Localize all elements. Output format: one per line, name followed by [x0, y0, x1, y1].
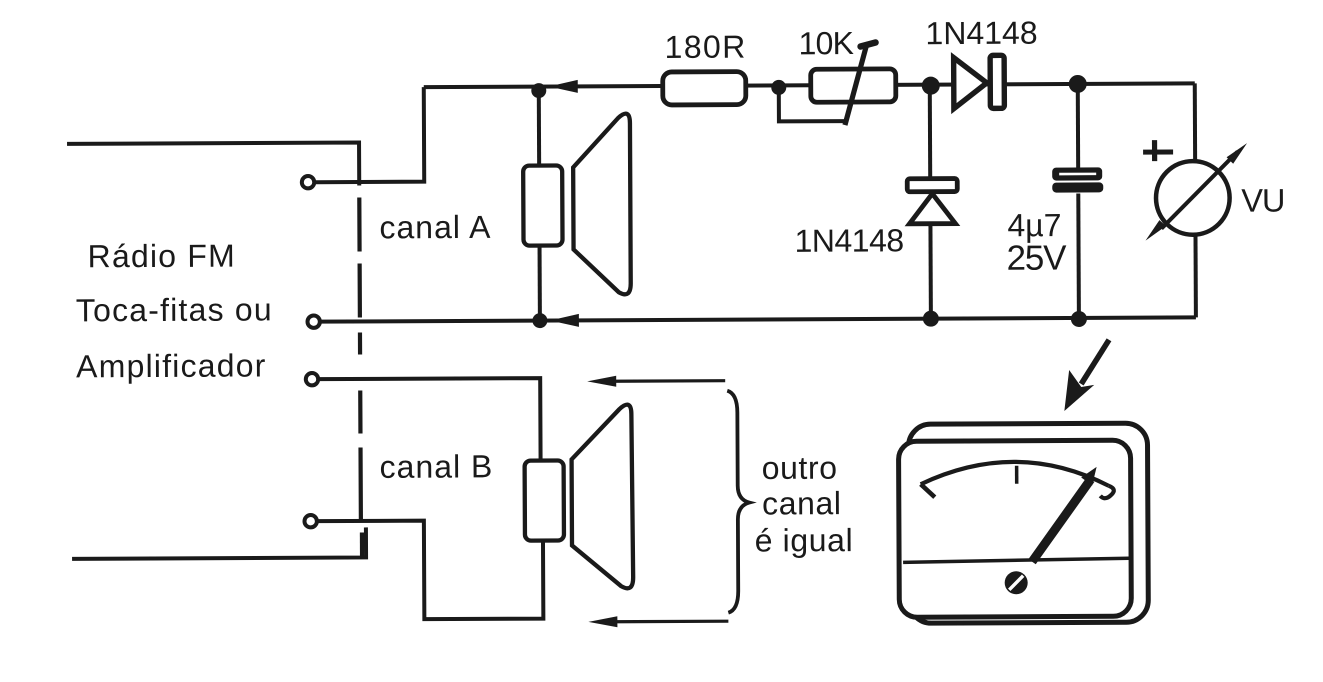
- svg-text:é igual: é igual: [755, 522, 854, 558]
- svg-text:180R: 180R: [664, 29, 746, 65]
- svg-text:1N4148: 1N4148: [925, 15, 1037, 52]
- svg-text:canal: canal: [762, 485, 842, 521]
- svg-text:1N4148: 1N4148: [794, 222, 903, 259]
- svg-text:VU: VU: [1241, 182, 1284, 218]
- svg-text:Rádio FM: Rádio FM: [87, 238, 235, 275]
- svg-text:10K: 10K: [798, 25, 853, 61]
- svg-text:Amplificador: Amplificador: [76, 347, 267, 384]
- svg-text:25V: 25V: [1007, 239, 1068, 278]
- svg-text:canal A: canal A: [379, 209, 491, 246]
- svg-text:outro: outro: [762, 450, 838, 486]
- svg-text:Toca-fitas ou: Toca-fitas ou: [76, 291, 273, 328]
- svg-text:canal B: canal B: [380, 448, 494, 485]
